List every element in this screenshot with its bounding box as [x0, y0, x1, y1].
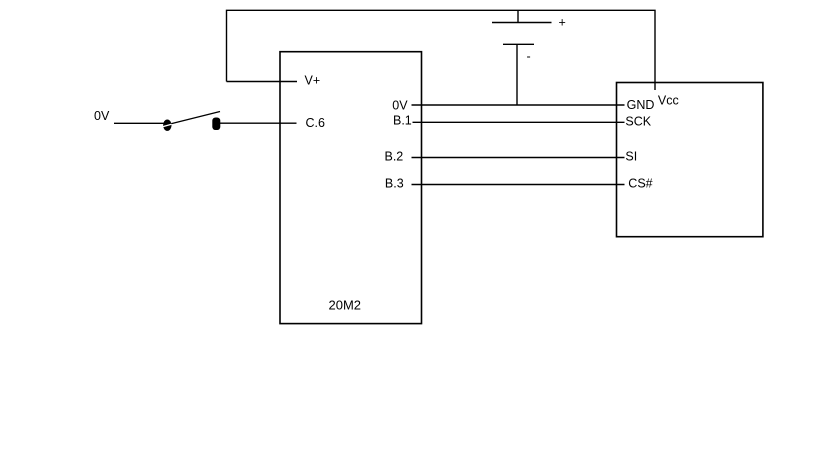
svg-text:-: - [527, 50, 531, 64]
svg-text:B.2: B.2 [385, 149, 404, 163]
svg-text:20M2: 20M2 [329, 297, 362, 312]
svg-text:Vcc: Vcc [658, 94, 679, 108]
svg-text:0V: 0V [392, 99, 408, 113]
svg-text:B.3: B.3 [385, 176, 404, 190]
svg-text:SCK: SCK [625, 114, 651, 128]
svg-text:GND: GND [627, 98, 655, 112]
svg-text:SI: SI [625, 149, 637, 163]
svg-text:V+: V+ [305, 73, 321, 87]
svg-text:B.1: B.1 [393, 114, 412, 128]
svg-text:C.6: C.6 [306, 116, 326, 130]
svg-text:CS#: CS# [628, 177, 652, 191]
svg-text:0V: 0V [94, 109, 110, 123]
svg-text:+: + [559, 16, 566, 30]
